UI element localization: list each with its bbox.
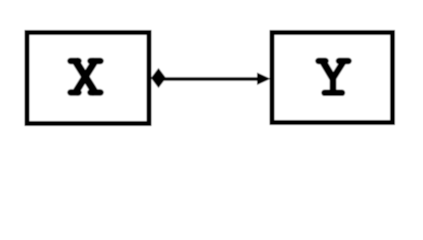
arrowhead at Y [257, 73, 271, 86]
label X (Courier-bold style glyph) [71, 60, 101, 95]
diamond tail at X [151, 68, 166, 88]
box X (node X) [27, 33, 149, 124]
label Y (Courier-bold style glyph) [319, 60, 349, 93]
box Y (node Y) [272, 33, 393, 123]
wire: edge line from X to Y [160, 77, 259, 81]
